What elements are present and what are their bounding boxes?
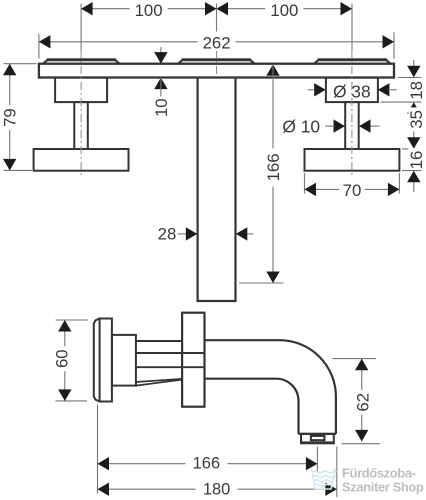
svg-text:28: 28 (158, 225, 177, 244)
handle disc front strip (side view) (94, 319, 100, 402)
dim line 70 (305, 188, 400, 190)
ext line spout end (336, 447, 338, 498)
dim 166 (spout projection, front view) (266, 64, 279, 76)
ext line escutcheon bottom (381, 101, 422, 103)
dim 100 center extension line (216, 4, 218, 32)
dim diameter 38 (308, 89, 315, 91)
dim line 166 bottom (98, 463, 318, 465)
dim 262 extension lines (38, 34, 40, 58)
label 16 (408, 148, 423, 172)
label 262 (198, 37, 236, 51)
dim diameter 10 (334, 119, 346, 132)
dim 100 (left) extension line (80, 4, 82, 51)
handle disc (side view) (100, 319, 112, 402)
label 70 (339, 184, 365, 198)
label 166 bottom (185, 457, 227, 471)
right handle centerline (351, 50, 353, 177)
spout outer profile (205, 340, 336, 434)
svg-text:Fürdőszoba-: Fürdőszoba- (342, 466, 416, 481)
right handle escutcheon (326, 78, 378, 103)
ext line plate bottom (398, 77, 422, 79)
wall plate (front view, 262 wide) (39, 64, 394, 78)
middle mounting pad (178, 59, 254, 63)
spout (front view) (198, 78, 236, 302)
handle hub (side view) (112, 335, 136, 386)
left mounting pad (43, 59, 119, 63)
label 180 (196, 483, 238, 497)
left handle centerline (80, 50, 82, 177)
svg-text:180: 180 (203, 480, 231, 498)
label 166 vertical (266, 148, 281, 186)
dim 62 extension lines (333, 358, 377, 360)
dim line 180 (98, 488, 337, 490)
svg-text:70: 70 (343, 181, 362, 200)
wall escutcheon plate (side view) (182, 313, 204, 407)
dim 79 extension lines (4, 63, 37, 65)
svg-text:Szaniter Shop: Szaniter Shop (342, 480, 424, 495)
svg-text:35: 35 (407, 110, 426, 129)
dim 100 (right) extension line (351, 4, 353, 51)
label 62 (355, 390, 370, 415)
svg-text:Ø 10: Ø 10 (282, 116, 320, 136)
right dim column line (413, 60, 415, 192)
spout inner profile (205, 379, 299, 434)
dim 28 (spout width) (178, 233, 189, 235)
dim line 100 right (217, 8, 353, 10)
ext line crossbar bottom (402, 170, 422, 172)
label 100 right (265, 5, 303, 19)
spout centerline (216, 50, 218, 77)
label 35 (408, 107, 423, 131)
label 60 (54, 346, 69, 371)
right mounting pad (314, 59, 390, 63)
dim line 100 left (81, 8, 216, 10)
dim 10 (plate thickness) (160, 47, 162, 63)
svg-text:60: 60 (52, 349, 71, 368)
svg-text:62: 62 (353, 393, 372, 412)
label 18 (408, 78, 423, 102)
ext line aerator center (316, 447, 318, 472)
spout end edge (299, 433, 336, 435)
dim line 62 (361, 359, 363, 442)
dim line 60 (64, 320, 66, 401)
right handle cross bar (305, 149, 400, 171)
dim 60 extension lines (56, 319, 89, 321)
label 100 left (130, 5, 168, 19)
svg-text:100: 100 (135, 1, 163, 20)
aerator flange (301, 434, 334, 443)
ext line disc face (97, 405, 99, 494)
svg-text:166: 166 (264, 153, 283, 181)
aerator inner ring (311, 436, 325, 440)
handle stem lines (side view) (136, 340, 182, 342)
dim line 262 (39, 41, 394, 43)
svg-text:262: 262 (203, 33, 231, 52)
left handle stem (74, 102, 88, 149)
label 79 (2, 105, 17, 130)
dim 70 extension lines (304, 173, 306, 194)
ext line crossbar top (402, 148, 422, 150)
svg-text:Ø 38: Ø 38 (333, 81, 371, 101)
svg-text:16: 16 (407, 151, 426, 170)
svg-text:18: 18 (407, 81, 426, 100)
svg-text:100: 100 (270, 1, 298, 20)
left handle cross bar (34, 149, 129, 171)
shop logo water glass icon (312, 468, 337, 489)
svg-text:79: 79 (1, 108, 20, 127)
right handle stem (345, 102, 359, 149)
svg-text:10: 10 (152, 98, 171, 117)
svg-text:166: 166 (193, 454, 221, 472)
left handle escutcheon (55, 78, 107, 103)
dim line 79 (9, 64, 11, 171)
